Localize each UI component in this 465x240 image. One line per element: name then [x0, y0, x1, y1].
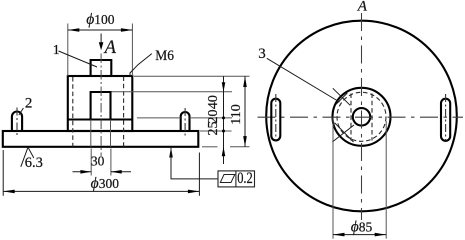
- svg-text:25: 25: [206, 122, 221, 136]
- svg-text:30: 30: [91, 154, 105, 169]
- svg-text:110: 110: [229, 104, 244, 124]
- svg-text:ϕ100: ϕ100: [86, 11, 115, 28]
- svg-text:ϕ300: ϕ300: [91, 175, 120, 192]
- svg-text:A: A: [357, 0, 367, 15]
- svg-text:6.3: 6.3: [25, 155, 43, 171]
- svg-text:20: 20: [206, 110, 221, 124]
- svg-text:1: 1: [53, 43, 60, 58]
- svg-text:0.2: 0.2: [237, 170, 253, 187]
- svg-text:2: 2: [25, 96, 33, 112]
- svg-text:40: 40: [206, 95, 221, 109]
- svg-text:A: A: [103, 38, 117, 58]
- svg-text:ϕ85: ϕ85: [351, 219, 373, 236]
- svg-text:3: 3: [258, 46, 266, 62]
- svg-text:M6: M6: [155, 48, 174, 64]
